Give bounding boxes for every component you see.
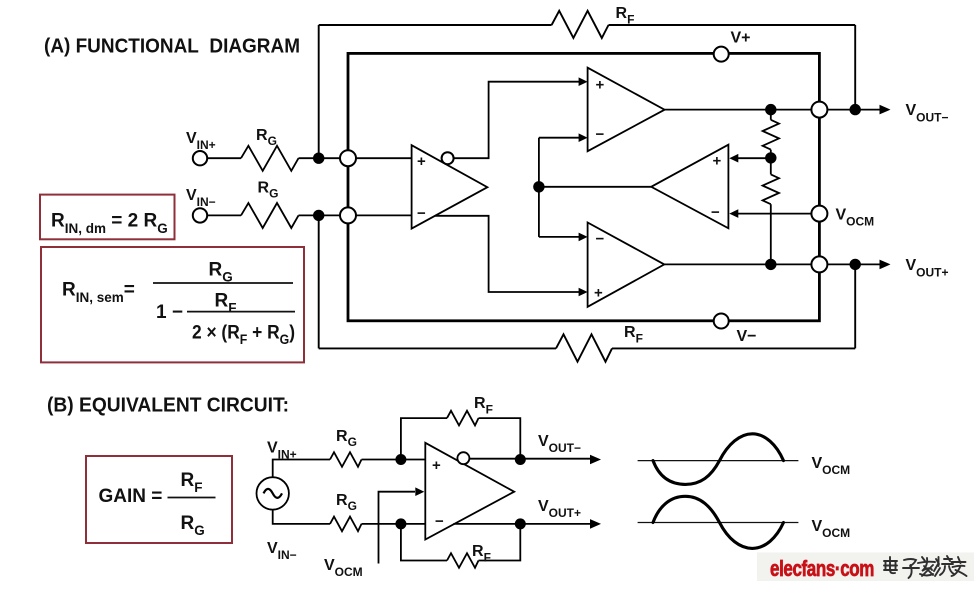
circle A1 output tap xyxy=(457,452,469,464)
svg-text:−: − xyxy=(417,205,426,222)
terminal VIN+ xyxy=(193,151,207,165)
wire port to op-amp U1 + input xyxy=(356,157,412,159)
sine wave upper axis xyxy=(638,460,799,462)
wire RG to input port xyxy=(299,157,341,159)
node dot VIN- junction xyxy=(313,210,324,221)
logo chinese characters xyxy=(884,556,967,578)
wire bottom feedback horizontal left xyxy=(319,347,556,349)
logo band xyxy=(757,553,974,582)
node dot VOUT+ xyxy=(850,259,861,270)
node dot VIN+ junction xyxy=(313,153,324,164)
formula main fraction bar xyxy=(153,282,293,284)
wire mid vertical node xyxy=(538,138,540,237)
formula inner fraction bar xyxy=(187,311,295,313)
source sine symbol xyxy=(264,489,283,498)
svg-text:1 −: 1 − xyxy=(156,302,183,323)
arrowhead U2 + input xyxy=(579,77,588,86)
formula GAIN fraction bar xyxy=(168,497,216,499)
resistor RF (top feedback) xyxy=(552,11,609,38)
node dot VOUT- xyxy=(850,104,861,115)
svg-text:−: − xyxy=(711,204,720,221)
wire U3 output to node xyxy=(539,186,651,188)
formula box R_IN,dm xyxy=(40,195,175,240)
svg-text:−: − xyxy=(435,513,444,530)
wire RG to op-amp - xyxy=(362,523,426,525)
op-amp U2 (top output amp) xyxy=(588,68,665,152)
circle U1 output tap xyxy=(442,152,454,164)
sine wave lower axis xyxy=(638,522,799,524)
resistor RF (B bottom) xyxy=(447,553,479,568)
wire bottom feedback horizontal right xyxy=(612,347,855,349)
wire bottom feedback right vertical xyxy=(854,264,856,348)
arrowhead VOCM (B) xyxy=(415,487,424,496)
svg-text:V+: V+ xyxy=(731,30,751,47)
svg-text:+: + xyxy=(417,153,426,170)
port circle V- xyxy=(714,314,729,329)
port circle upper input xyxy=(340,150,356,166)
resistor R (chain lower) xyxy=(763,174,779,204)
arrowhead U2 - input xyxy=(579,133,588,142)
sine wave upper (VOUT- waveform) xyxy=(653,434,784,485)
wire RG to lower input port xyxy=(299,214,341,216)
arrowhead VOUT+ (B) xyxy=(590,519,601,529)
svg-text:GAIN =: GAIN = xyxy=(99,486,163,507)
wire A1 output top to VOUT- xyxy=(470,458,592,460)
svg-text:+: + xyxy=(596,77,605,94)
port circle lower input xyxy=(340,207,356,223)
node dot B in+ xyxy=(395,454,406,465)
wire VOCM input xyxy=(379,492,416,564)
port circle VOCM xyxy=(811,206,827,222)
resistor RG (lower input) xyxy=(241,203,299,228)
wire VIN- input to RG xyxy=(207,214,241,216)
svg-text:(A) FUNCTIONAL DIAGRAM: (A) FUNCTIONAL DIAGRAM xyxy=(44,36,300,58)
svg-text:+: + xyxy=(594,285,603,302)
arrowhead VOUT- xyxy=(880,105,891,115)
op-amp U1 (input buffer) xyxy=(412,145,488,228)
port circle V+ xyxy=(714,47,729,62)
inner box (amplifier boundary) xyxy=(348,53,819,320)
resistor RF (B top) xyxy=(447,411,479,426)
wire U2 output to VOUT- xyxy=(665,109,881,111)
wire top feedback horizontal right xyxy=(609,24,856,26)
wire resistor chain top xyxy=(770,110,772,120)
port circle VOUT+ xyxy=(811,256,827,272)
node dot B out+ xyxy=(515,518,526,529)
arrowhead U3 - input xyxy=(729,209,738,218)
wire RF top right xyxy=(479,418,521,459)
wire top feedback right vertical xyxy=(854,25,856,110)
wire bottom feedback left vertical xyxy=(318,215,320,348)
node dot chain mid xyxy=(765,152,776,163)
wire source top to VIN+ line xyxy=(273,460,330,478)
wire U1 - tap to U4 xyxy=(435,216,580,292)
resistor RG (upper input) xyxy=(241,146,299,171)
arrowhead U3 + input xyxy=(729,154,738,163)
wire chain mid xyxy=(770,150,772,175)
svg-text:(B) EQUIVALENT CIRCUIT:: (B) EQUIVALENT CIRCUIT: xyxy=(47,395,289,417)
wire top feedback left vertical xyxy=(318,25,320,158)
arrowhead VOUT+ xyxy=(880,260,891,270)
wire RG to op-amp + xyxy=(362,459,426,461)
svg-text:V−: V− xyxy=(737,328,757,345)
op-amp U4 (bottom output amp) xyxy=(588,223,665,307)
sine wave lower (VOUT+ waveform) xyxy=(653,496,784,548)
arrowhead U4 - input xyxy=(579,233,588,242)
op-amp A1 (B) xyxy=(425,443,514,540)
wire RF bottom feedback xyxy=(401,524,447,561)
svg-text:−: − xyxy=(596,126,605,143)
svg-text:elecfans·com: elecfans·com xyxy=(770,556,874,581)
wire VIN+ input to RG xyxy=(207,157,241,159)
resistor RF (bottom feedback) xyxy=(556,334,612,361)
node dot U3 output xyxy=(533,181,544,192)
svg-text:−: − xyxy=(596,231,605,248)
wire U2 - input from node xyxy=(539,137,580,139)
wire chain bottom xyxy=(770,204,772,264)
svg-text:+: + xyxy=(432,457,441,474)
resistor R (chain upper) xyxy=(763,120,779,150)
wire top feedback horizontal left xyxy=(319,24,552,26)
wire A1 output bottom to VOUT+ xyxy=(453,523,592,525)
terminal VIN- xyxy=(193,208,207,222)
node dot B in- xyxy=(395,518,406,529)
resistor RG (B upper) xyxy=(330,452,362,467)
wire U4 output to VOUT+ xyxy=(664,263,881,265)
formula box GAIN xyxy=(86,456,232,543)
wire port to op-amp U1 - input xyxy=(356,214,412,216)
node dot chain top xyxy=(765,104,776,115)
wire RF bottom right xyxy=(479,524,521,561)
port circle VOUT- xyxy=(811,102,827,118)
source circle xyxy=(257,477,289,509)
node dot B out- xyxy=(515,454,526,465)
op-amp U3 (common-mode amp, points left) xyxy=(651,145,728,229)
wire U1 + tap to U2 xyxy=(454,82,581,159)
svg-text:+: + xyxy=(713,153,722,170)
wire U4 - input from node xyxy=(539,236,580,238)
wire source bottom to VIN- line xyxy=(273,509,330,524)
wire RF top feedback xyxy=(401,418,447,459)
arrowhead U4 + input xyxy=(579,288,588,297)
arrowhead VOUT- (B) xyxy=(590,455,601,465)
resistor RG (B lower) xyxy=(330,517,362,532)
node dot chain bottom xyxy=(765,259,776,270)
wire U3 + input from chain tap xyxy=(737,157,771,159)
formula box R_IN,sem xyxy=(41,247,304,362)
wire U3 - input from VOCM port xyxy=(737,213,811,215)
